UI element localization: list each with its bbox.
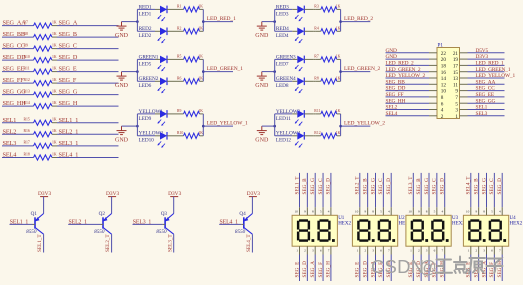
svg-text:5: 5 <box>434 210 436 214</box>
svg-text:D3V3: D3V3 <box>476 54 489 60</box>
svg-text:R4: R4 <box>314 26 319 30</box>
svg-text:SEL3: SEL3 <box>476 111 488 117</box>
svg-text:5: 5 <box>320 210 322 214</box>
svg-text:1K: 1K <box>52 141 57 145</box>
svg-text:10: 10 <box>441 89 447 95</box>
svg-text:U1: U1 <box>338 216 345 221</box>
svg-text:22: 22 <box>441 51 447 57</box>
svg-text:LED_GREEN_1: LED_GREEN_1 <box>476 67 511 73</box>
svg-text:1K: 1K <box>52 89 57 93</box>
svg-text:R15: R15 <box>24 118 30 122</box>
svg-text:1K: 1K <box>52 118 57 122</box>
svg-text:SEL3_T: SEL3_T <box>408 176 414 195</box>
svg-text:8550: 8550 <box>26 229 37 235</box>
svg-text:1K: 1K <box>336 131 341 135</box>
svg-text:GND: GND <box>255 33 269 39</box>
svg-text:8: 8 <box>426 210 428 214</box>
svg-text:6: 6 <box>380 249 382 253</box>
svg-text:SEG_G: SEG_G <box>310 178 316 195</box>
svg-text:4: 4 <box>499 210 501 214</box>
svg-text:3: 3 <box>312 249 314 253</box>
svg-text:R16: R16 <box>24 129 30 133</box>
svg-text:1K: 1K <box>52 152 57 156</box>
svg-text:SEG_D: SEG_D <box>326 178 332 195</box>
svg-text:SEL1: SEL1 <box>476 105 488 111</box>
svg-text:17: 17 <box>453 64 459 70</box>
svg-text:R2: R2 <box>177 26 182 30</box>
svg-text:1K: 1K <box>52 20 57 24</box>
svg-text:GND: GND <box>115 138 129 144</box>
svg-text:3: 3 <box>426 249 428 253</box>
svg-text:LED_GREEN_1: LED_GREEN_1 <box>207 66 244 72</box>
svg-text:SEG_E: SEG_E <box>294 262 300 278</box>
svg-text:9: 9 <box>364 210 366 214</box>
svg-text:11: 11 <box>453 82 458 88</box>
svg-text:R13: R13 <box>24 89 30 93</box>
svg-text:LED8: LED8 <box>276 83 289 89</box>
svg-text:LED12: LED12 <box>276 138 292 144</box>
svg-text:U3: U3 <box>452 216 459 221</box>
svg-text:R17: R17 <box>24 141 30 145</box>
svg-text:9: 9 <box>475 210 477 214</box>
svg-text:R11: R11 <box>24 66 30 70</box>
svg-text:1K: 1K <box>336 109 341 113</box>
svg-text:SEL4: SEL4 <box>386 111 398 117</box>
svg-text:SEG_B: SEG_B <box>473 178 479 195</box>
svg-text:SEG_H: SEG_H <box>326 261 332 278</box>
svg-text:SEG_H: SEG_H <box>497 261 503 278</box>
svg-text:1K: 1K <box>52 101 57 105</box>
svg-text:SEG_D: SEG_D <box>302 261 308 278</box>
svg-text:HEX2: HEX2 <box>338 222 351 227</box>
svg-text:9: 9 <box>304 210 306 214</box>
svg-text:Q1: Q1 <box>31 211 38 217</box>
svg-text:8: 8 <box>312 210 314 214</box>
svg-text:1: 1 <box>410 249 412 253</box>
svg-text:R8: R8 <box>24 32 29 36</box>
svg-text:19: 19 <box>453 57 459 63</box>
svg-text:SEG_D: SEG_D <box>497 178 503 195</box>
svg-text:21: 21 <box>453 51 459 57</box>
svg-text:SEG_C: SEG_C <box>318 178 324 195</box>
svg-text:SEL2_T: SEL2_T <box>355 176 361 195</box>
svg-text:8550: 8550 <box>156 229 167 235</box>
svg-text:1K: 1K <box>198 26 203 30</box>
svg-text:LED6: LED6 <box>139 83 152 89</box>
svg-text:LED_RED_2: LED_RED_2 <box>344 16 373 22</box>
svg-text:R10: R10 <box>177 131 183 135</box>
svg-text:LED_YELLOW_1: LED_YELLOW_1 <box>207 121 248 127</box>
svg-text:2: 2 <box>475 249 477 253</box>
svg-text:1K: 1K <box>336 76 341 80</box>
svg-text:10: 10 <box>295 210 299 214</box>
svg-text:U2: U2 <box>399 216 406 221</box>
svg-text:10: 10 <box>466 210 470 214</box>
svg-text:7: 7 <box>499 249 501 253</box>
svg-text:SEG_G: SEG_G <box>370 178 376 195</box>
svg-text:3: 3 <box>455 108 458 114</box>
svg-text:GND: GND <box>115 83 129 89</box>
svg-text:SEG_C: SEG_C <box>432 178 438 195</box>
svg-text:SEG_F: SEG_F <box>318 262 324 278</box>
svg-text:LED4: LED4 <box>276 33 289 39</box>
svg-text:1K: 1K <box>336 26 341 30</box>
svg-text:GND: GND <box>255 138 269 144</box>
svg-text:SEL2: SEL2 <box>386 105 398 111</box>
svg-text:8550: 8550 <box>235 229 246 235</box>
svg-text:9: 9 <box>455 89 458 95</box>
svg-text:13: 13 <box>453 76 459 82</box>
svg-text:R8: R8 <box>314 76 319 80</box>
svg-text:R3: R3 <box>314 4 319 8</box>
svg-text:5: 5 <box>455 101 458 107</box>
svg-text:5: 5 <box>491 210 493 214</box>
svg-text:4: 4 <box>441 210 443 214</box>
svg-text:6: 6 <box>441 101 444 107</box>
svg-text:16: 16 <box>441 70 447 76</box>
svg-text:7: 7 <box>441 249 443 253</box>
svg-text:CSDN: CSDN <box>371 256 424 277</box>
svg-text:1: 1 <box>296 249 298 253</box>
svg-text:1: 1 <box>357 249 359 253</box>
svg-text:1K: 1K <box>52 66 57 70</box>
svg-text:D5V5: D5V5 <box>476 48 489 54</box>
svg-text:5: 5 <box>380 210 382 214</box>
svg-text:LED5: LED5 <box>139 61 152 67</box>
svg-text:20: 20 <box>441 57 447 63</box>
svg-text:8: 8 <box>372 210 374 214</box>
svg-text:SEG_D: SEG_D <box>440 178 446 195</box>
svg-text:@: @ <box>419 257 437 277</box>
svg-text:GND: GND <box>386 48 397 54</box>
svg-text:R6: R6 <box>177 76 182 80</box>
svg-text:10: 10 <box>355 210 359 214</box>
svg-text:SEL2_T: SEL2_T <box>105 234 111 252</box>
svg-text:1K: 1K <box>198 109 203 113</box>
svg-text:SEG_HH: SEG_HH <box>386 98 406 104</box>
svg-text:1K: 1K <box>198 76 203 80</box>
svg-text:SEG_A: SEG_A <box>310 261 316 278</box>
svg-text:6: 6 <box>491 249 493 253</box>
svg-text:Q3: Q3 <box>161 211 168 217</box>
svg-text:LED_RED_1: LED_RED_1 <box>476 61 504 67</box>
svg-text:2: 2 <box>364 249 366 253</box>
svg-text:1K: 1K <box>52 55 57 59</box>
svg-text:GND: GND <box>386 54 397 60</box>
svg-text:LED7: LED7 <box>276 61 289 67</box>
svg-text:R1: R1 <box>177 4 182 8</box>
svg-text:6: 6 <box>434 249 436 253</box>
svg-text:3: 3 <box>372 249 374 253</box>
svg-text:SEL4_T: SEL4_T <box>466 176 472 195</box>
svg-text:2: 2 <box>441 114 444 120</box>
svg-text:9: 9 <box>418 210 420 214</box>
svg-text:HEX2: HEX2 <box>510 222 523 227</box>
svg-text:LED_GREEN_2: LED_GREEN_2 <box>386 67 421 73</box>
svg-text:LED_GREEN_2: LED_GREEN_2 <box>344 66 381 72</box>
svg-text:Q2: Q2 <box>99 211 106 217</box>
svg-text:1K: 1K <box>52 78 57 82</box>
svg-text:4: 4 <box>328 210 330 214</box>
svg-text:SEG_G: SEG_G <box>481 178 487 195</box>
svg-text:LED_YELLOW_1: LED_YELLOW_1 <box>476 73 516 79</box>
svg-text:4: 4 <box>441 108 444 114</box>
svg-text:LED9: LED9 <box>139 116 152 122</box>
svg-text:1K: 1K <box>336 54 341 58</box>
svg-text:1K: 1K <box>336 4 341 8</box>
svg-text:SEG_CC: SEG_CC <box>476 86 496 92</box>
svg-text:15: 15 <box>453 70 459 76</box>
svg-text:R9: R9 <box>177 109 182 113</box>
svg-text:SEG_BB: SEG_BB <box>386 79 406 85</box>
svg-text:7: 7 <box>455 95 458 101</box>
svg-text:SEL3_T: SEL3_T <box>167 234 173 252</box>
svg-text:8: 8 <box>441 95 444 101</box>
svg-text:12: 12 <box>441 82 447 88</box>
svg-text:SEG_B: SEG_B <box>362 178 368 195</box>
svg-text:SEG_GG: SEG_GG <box>476 98 496 104</box>
svg-text:SEG_B: SEG_B <box>416 178 422 195</box>
svg-text:1K: 1K <box>198 54 203 58</box>
svg-text:1K: 1K <box>52 32 57 36</box>
svg-text:SEG_E: SEG_E <box>355 262 361 278</box>
svg-text:8: 8 <box>483 210 485 214</box>
svg-text:R10: R10 <box>24 55 30 59</box>
svg-text:1: 1 <box>455 114 458 120</box>
svg-text:14: 14 <box>441 76 447 82</box>
svg-text:SEG_AA: SEG_AA <box>476 79 496 85</box>
svg-text:SEL1_T: SEL1_T <box>37 234 43 252</box>
svg-text:1: 1 <box>468 249 470 253</box>
svg-text:1K: 1K <box>52 129 57 133</box>
svg-text:LED_YELLOW_2: LED_YELLOW_2 <box>386 73 426 79</box>
svg-text:U4: U4 <box>510 216 517 221</box>
svg-text:2: 2 <box>304 249 306 253</box>
svg-text:1K: 1K <box>198 131 203 135</box>
svg-text:LED1: LED1 <box>139 11 152 17</box>
svg-text:7: 7 <box>328 249 330 253</box>
svg-text:10: 10 <box>408 210 412 214</box>
svg-text:R7: R7 <box>24 20 29 24</box>
svg-text:SEG_EE: SEG_EE <box>476 92 495 98</box>
svg-text:LED_YELLOW_2: LED_YELLOW_2 <box>344 121 385 127</box>
svg-text:SEL4_T: SEL4_T <box>246 234 252 252</box>
svg-text:LED_RED_2: LED_RED_2 <box>386 61 414 67</box>
svg-text:SEG_D: SEG_D <box>386 178 392 195</box>
svg-text:R12: R12 <box>24 78 30 82</box>
svg-text:8550: 8550 <box>94 229 105 235</box>
svg-text:R9: R9 <box>24 43 29 47</box>
svg-text:6: 6 <box>320 249 322 253</box>
svg-text:2: 2 <box>418 249 420 253</box>
svg-text:LED10: LED10 <box>139 138 155 144</box>
svg-text:3: 3 <box>483 249 485 253</box>
svg-text:LED_RED_1: LED_RED_1 <box>207 16 236 22</box>
svg-text:SEG_DD: SEG_DD <box>386 86 406 92</box>
svg-text:1K: 1K <box>52 43 57 47</box>
svg-text:18: 18 <box>441 64 447 70</box>
svg-text:GND: GND <box>115 33 129 39</box>
svg-text:LED11: LED11 <box>276 116 291 122</box>
svg-text:4: 4 <box>388 210 390 214</box>
svg-text:SEG_D: SEG_D <box>362 261 368 278</box>
svg-text:SEG_G: SEG_G <box>424 178 430 195</box>
svg-text:SEG_B: SEG_B <box>302 178 308 195</box>
svg-text:1K: 1K <box>198 4 203 8</box>
svg-text:R5: R5 <box>177 54 182 58</box>
svg-text:Q4: Q4 <box>239 211 246 217</box>
svg-text:R18: R18 <box>24 152 30 156</box>
svg-text:GND: GND <box>255 83 269 89</box>
svg-text:R7: R7 <box>314 54 319 58</box>
svg-text:R12: R12 <box>314 131 320 135</box>
svg-text:SEG_C: SEG_C <box>378 178 384 195</box>
svg-text:SEG_FF: SEG_FF <box>386 92 404 98</box>
svg-text:LED3: LED3 <box>276 11 289 17</box>
svg-text:R11: R11 <box>314 109 320 113</box>
svg-text:R14: R14 <box>24 101 30 105</box>
svg-text:7: 7 <box>388 249 390 253</box>
svg-text:SEL1_T: SEL1_T <box>294 176 300 195</box>
svg-text:SEG_C: SEG_C <box>489 178 495 195</box>
svg-text:LED2: LED2 <box>139 33 152 39</box>
